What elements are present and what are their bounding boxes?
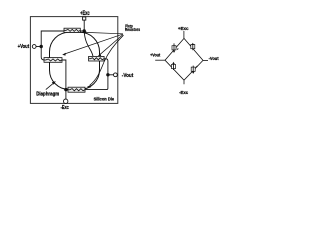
svg-text:+Vout: +Vout <box>18 44 30 50</box>
svg-text:Silicon Die: Silicon Die <box>94 96 115 101</box>
svg-text:-Vout: -Vout <box>122 73 134 79</box>
svg-text:-Vout: -Vout <box>209 56 219 61</box>
svg-text:+Vout: +Vout <box>150 53 161 58</box>
svg-text:+Exc: +Exc <box>80 11 90 17</box>
svg-text:+Exc: +Exc <box>178 26 189 32</box>
svg-text:-Exc: -Exc <box>179 90 188 96</box>
svg-text:-Exc: -Exc <box>61 105 69 111</box>
svg-text:Diaphragm: Diaphragm <box>36 92 59 98</box>
svg-text:Resistors: Resistors <box>125 27 141 32</box>
